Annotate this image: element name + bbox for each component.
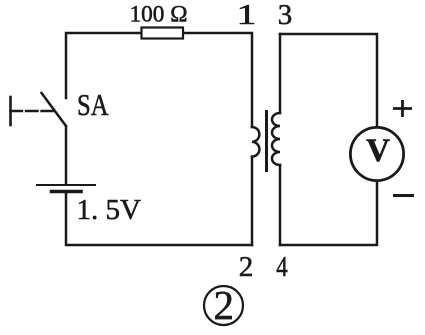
svg-text:2: 2 <box>239 251 254 283</box>
svg-text:100 Ω: 100 Ω <box>130 2 188 27</box>
wire: switch bottom contact down to battery top plate <box>65 126 68 184</box>
wire: secondary coil down to node 4 corner <box>279 165 282 245</box>
voltmeter V1 circle <box>350 127 403 180</box>
wire: left loop top-left (switch top contact up and across to resistor) <box>66 33 141 98</box>
svg-text:3: 3 <box>278 0 293 31</box>
svg-text:4: 4 <box>276 251 288 283</box>
battery GB positive long plate <box>37 184 95 186</box>
switch SA actuator terminal bar <box>9 97 12 125</box>
wire: node 3 lead down to secondary coil <box>279 34 282 113</box>
svg-text:SA: SA <box>77 87 109 122</box>
wire: right loop bottom <box>280 181 377 245</box>
wire: primary coil down to node 2 corner <box>251 157 254 245</box>
svg-text:2: 2 <box>214 282 235 328</box>
figure number circle ② outline <box>204 286 243 325</box>
svg-text:1: 1 <box>237 0 257 31</box>
transformer T1 secondary coil (4 turns) <box>272 113 280 165</box>
transformer T1 primary coil (2 turns) <box>252 127 259 157</box>
svg-text:V: V <box>366 133 390 169</box>
switch SA blade <box>42 93 67 126</box>
wire: resistor to node 1 corner down to primary coil <box>184 33 252 127</box>
battery GB negative short thick plate <box>52 190 82 194</box>
transformer T1 core bar <box>265 112 268 171</box>
wire: left loop bottom <box>66 193 252 246</box>
polarity label − (minus sign) <box>393 194 414 197</box>
svg-text:1. 5V: 1. 5V <box>77 194 142 226</box>
polarity label + (plus sign) <box>393 100 412 117</box>
switch SA actuator dashed link <box>11 110 55 112</box>
wire: right loop top <box>280 34 377 127</box>
resistor R1 100Ω body <box>142 28 184 39</box>
